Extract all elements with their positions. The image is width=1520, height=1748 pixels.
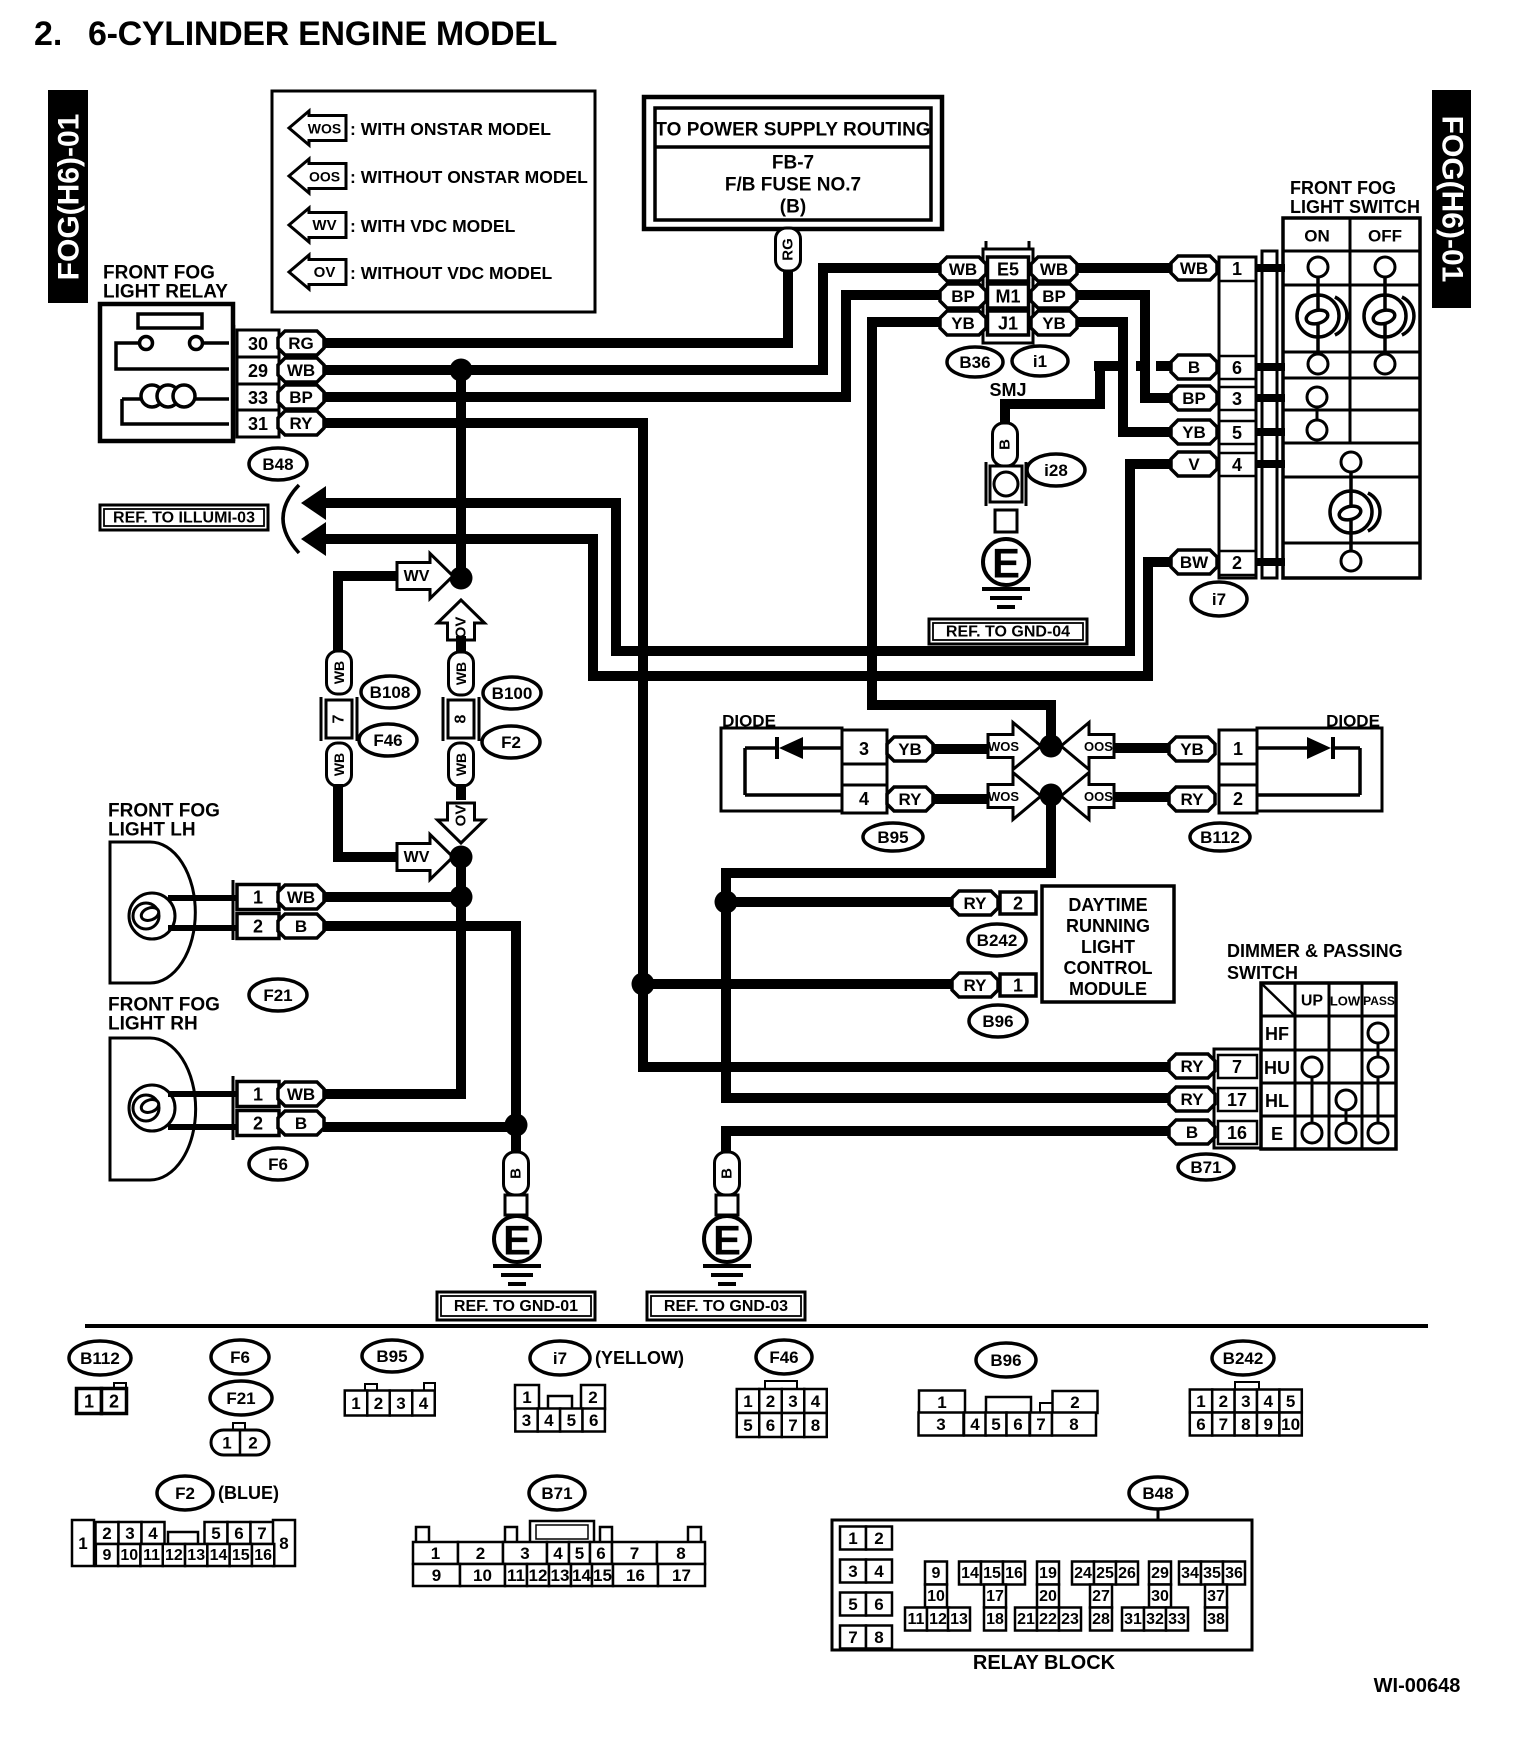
illumi brace arc bbox=[283, 485, 299, 553]
connector B96 pinout bbox=[919, 1391, 965, 1414]
svg-text:13: 13 bbox=[187, 1547, 205, 1564]
SMJ left label WB bbox=[940, 257, 986, 281]
svg-text:8: 8 bbox=[453, 714, 470, 723]
diode box left (B95) bbox=[721, 728, 842, 811]
connector B to ground GND-01 bbox=[504, 1152, 529, 1195]
fog switch pin column bbox=[1219, 257, 1256, 578]
svg-text:30: 30 bbox=[1151, 1588, 1169, 1605]
SMJ cell J1 bbox=[988, 311, 1029, 335]
svg-text:UP: UP bbox=[1301, 993, 1324, 1010]
oval F21 pinout bbox=[210, 1381, 272, 1415]
svg-text:FRONT FOG: FRONT FOG bbox=[103, 263, 215, 284]
fog RH connector pins bbox=[232, 1076, 235, 1140]
connector B71 pinout bbox=[416, 1527, 429, 1543]
svg-text:1: 1 bbox=[1233, 739, 1243, 759]
svg-text:1: 1 bbox=[848, 1529, 857, 1548]
fog RH pin2 label B bbox=[278, 1111, 324, 1135]
SMJ cell M1 bbox=[988, 284, 1029, 308]
svg-text:4: 4 bbox=[1232, 455, 1242, 475]
relay contact wiring bbox=[116, 343, 229, 369]
fog LH pin2 label B bbox=[278, 914, 324, 938]
ground E GND-03 bbox=[704, 1216, 750, 1262]
legend arrow WV bbox=[289, 208, 346, 242]
connector i7 pinout bbox=[515, 1385, 539, 1409]
svg-text:7: 7 bbox=[257, 1524, 266, 1543]
svg-text:7: 7 bbox=[788, 1416, 797, 1435]
svg-text:WB: WB bbox=[287, 1085, 315, 1104]
junction dot WB at relay row bbox=[450, 359, 473, 382]
oval B112 pinout bbox=[69, 1341, 131, 1375]
svg-text:35: 35 bbox=[1203, 1565, 1221, 1582]
wire YB to diode right bbox=[1113, 743, 1170, 753]
svg-text:36: 36 bbox=[1225, 1565, 1243, 1582]
illumi arrow upper bbox=[301, 486, 326, 520]
fog light RH housing bbox=[110, 1038, 196, 1180]
relay contact circles bbox=[140, 337, 153, 350]
svg-text:B: B bbox=[508, 1168, 525, 1179]
fog LH connector pins bbox=[232, 880, 235, 940]
oval i28 bbox=[1027, 454, 1085, 486]
arrow WV upper bbox=[397, 554, 453, 599]
svg-text:B: B bbox=[295, 1114, 307, 1133]
fog switch bulb ON bbox=[1297, 295, 1339, 337]
svg-text:i7: i7 bbox=[553, 1349, 567, 1368]
svg-text:2: 2 bbox=[476, 1544, 485, 1563]
svg-text:1: 1 bbox=[351, 1394, 360, 1413]
fog RH bulb leads bbox=[168, 1091, 237, 1097]
svg-text:WV: WV bbox=[312, 217, 336, 234]
svg-text:BP: BP bbox=[951, 287, 975, 306]
svg-text:9: 9 bbox=[432, 1566, 441, 1585]
svg-text:FB-7: FB-7 bbox=[772, 153, 814, 174]
ref to gnd-03 box bbox=[647, 1292, 805, 1320]
svg-text:6: 6 bbox=[766, 1416, 775, 1435]
svg-text:4: 4 bbox=[553, 1544, 563, 1563]
svg-text:B71: B71 bbox=[541, 1484, 572, 1503]
diode right pin column bbox=[1219, 730, 1257, 813]
svg-text:16: 16 bbox=[626, 1566, 645, 1585]
svg-text:9: 9 bbox=[1263, 1415, 1272, 1434]
wire B16 from dimmer to ground GND-03 bbox=[726, 1131, 1172, 1152]
diode right internal wiring bbox=[1257, 748, 1360, 795]
svg-text:8: 8 bbox=[279, 1534, 288, 1553]
svg-text:2.: 2. bbox=[34, 15, 62, 53]
svg-text:RY: RY bbox=[1181, 1057, 1205, 1076]
fuse 8 (F2) bbox=[443, 697, 479, 741]
svg-text:B: B bbox=[1188, 358, 1200, 377]
svg-text:7: 7 bbox=[1219, 1415, 1228, 1434]
relay pin 31 wire label RY bbox=[278, 411, 324, 435]
bottom separator line bbox=[85, 1324, 1428, 1328]
svg-text:B48: B48 bbox=[1142, 1484, 1173, 1503]
wire illumi lower to switch pin 2 (BW) bbox=[322, 539, 1172, 676]
svg-text:YB: YB bbox=[898, 740, 922, 759]
svg-text:30: 30 bbox=[248, 334, 268, 354]
svg-text:3: 3 bbox=[1232, 389, 1242, 409]
svg-text:27: 27 bbox=[1092, 1588, 1110, 1605]
svg-text:16: 16 bbox=[1227, 1123, 1247, 1143]
svg-text:YB: YB bbox=[1042, 314, 1066, 333]
svg-text:3: 3 bbox=[859, 739, 869, 759]
svg-text:WB: WB bbox=[453, 753, 469, 776]
svg-text:5: 5 bbox=[575, 1544, 584, 1563]
svg-text:B100: B100 bbox=[492, 684, 533, 703]
svg-text:12: 12 bbox=[529, 1566, 548, 1585]
svg-text:SWITCH: SWITCH bbox=[1227, 963, 1298, 983]
wire fog LH WB to junction bbox=[323, 892, 452, 902]
svg-text:7: 7 bbox=[1232, 1057, 1242, 1077]
svg-text:20: 20 bbox=[1039, 1588, 1057, 1605]
svg-text:8: 8 bbox=[811, 1416, 820, 1435]
svg-text:SMJ: SMJ bbox=[989, 380, 1026, 400]
wire WB from SMJ to switch pin 1 bbox=[1076, 263, 1172, 273]
svg-text:17: 17 bbox=[986, 1588, 1004, 1605]
relay coil return wiring bbox=[122, 399, 229, 424]
relay connector bracket bbox=[233, 325, 236, 441]
svg-text:2: 2 bbox=[248, 1434, 257, 1453]
relay block grid row B bbox=[925, 1585, 947, 1608]
wire RY diode left to junction bbox=[932, 794, 991, 804]
wire WB down to fog lights bbox=[323, 857, 461, 1094]
svg-text:(B): (B) bbox=[780, 197, 806, 218]
svg-text:5: 5 bbox=[211, 1524, 220, 1543]
SMJ connector bracket bbox=[986, 241, 1029, 250]
svg-text:DAYTIME: DAYTIME bbox=[1068, 895, 1147, 915]
svg-text:11: 11 bbox=[908, 1611, 925, 1628]
oval B242 pinout bbox=[1212, 1341, 1274, 1375]
svg-text:4: 4 bbox=[859, 789, 869, 809]
arrow WV lower bbox=[397, 835, 453, 880]
svg-text:25: 25 bbox=[1096, 1565, 1114, 1582]
svg-text:8: 8 bbox=[1241, 1415, 1250, 1434]
svg-text:5: 5 bbox=[743, 1416, 752, 1435]
svg-text:10: 10 bbox=[120, 1547, 138, 1564]
svg-text:RG: RG bbox=[780, 238, 797, 261]
svg-text:B242: B242 bbox=[977, 931, 1018, 950]
svg-text:1: 1 bbox=[84, 1392, 94, 1412]
svg-text:2: 2 bbox=[102, 1524, 111, 1543]
legend arrow OV bbox=[289, 255, 346, 289]
svg-text:F2: F2 bbox=[175, 1484, 195, 1503]
relay B48 box bbox=[100, 304, 233, 441]
oval F2 pinout bbox=[157, 1476, 213, 1510]
svg-text:CONTROL: CONTROL bbox=[1064, 958, 1153, 978]
svg-text:1: 1 bbox=[222, 1434, 231, 1453]
illumi arrow lower bbox=[301, 522, 326, 556]
svg-text:FRONT FOG: FRONT FOG bbox=[108, 801, 220, 822]
wire BP from relay pin 33 to SMJ M1 bbox=[323, 295, 941, 397]
connector F21 pinout bbox=[233, 1423, 245, 1431]
svg-text:MODULE: MODULE bbox=[1069, 979, 1147, 999]
svg-text:LIGHT: LIGHT bbox=[1081, 937, 1135, 957]
oval B95 bbox=[863, 823, 923, 851]
svg-text:BW: BW bbox=[1180, 553, 1209, 572]
svg-text:17: 17 bbox=[672, 1566, 691, 1585]
svg-text:1: 1 bbox=[253, 888, 263, 908]
svg-text:B242: B242 bbox=[1223, 1349, 1264, 1368]
relay pin 33 wire label BP bbox=[278, 385, 324, 409]
svg-text:TO POWER SUPPLY ROUTING: TO POWER SUPPLY ROUTING bbox=[655, 120, 930, 141]
svg-text:10: 10 bbox=[473, 1566, 492, 1585]
svg-text:6: 6 bbox=[1013, 1415, 1022, 1434]
diode left internal wiring bbox=[745, 748, 842, 795]
ground E GND-01 bbox=[494, 1216, 540, 1262]
diode box right (B112) bbox=[1257, 728, 1382, 811]
SMJ right label BP bbox=[1031, 284, 1077, 308]
svg-text:4: 4 bbox=[419, 1394, 429, 1413]
svg-text:F21: F21 bbox=[263, 986, 292, 1005]
svg-text:YB: YB bbox=[1182, 423, 1206, 442]
svg-text:24: 24 bbox=[1074, 1565, 1092, 1582]
svg-text:7: 7 bbox=[848, 1628, 857, 1647]
svg-text:WB: WB bbox=[331, 753, 347, 776]
svg-text:E: E bbox=[1271, 1124, 1283, 1144]
svg-text:12: 12 bbox=[165, 1547, 183, 1564]
oval F46 bbox=[359, 724, 417, 756]
relay pin 29 wire label WB bbox=[278, 358, 324, 382]
svg-text:V: V bbox=[1188, 455, 1200, 474]
wire RY branch to DRL module pin 1 bbox=[643, 979, 953, 989]
fog light RH bulb bbox=[129, 1085, 175, 1131]
svg-text:16: 16 bbox=[1005, 1565, 1023, 1582]
svg-text:1: 1 bbox=[1232, 259, 1242, 279]
SMJ left label YB bbox=[940, 311, 986, 335]
connector WB above fuse 8 bbox=[449, 652, 474, 695]
svg-text:10: 10 bbox=[927, 1588, 945, 1605]
svg-text:J1: J1 bbox=[998, 314, 1018, 334]
wire YB diode left to junction bbox=[932, 744, 991, 754]
svg-text:22: 22 bbox=[1039, 1611, 1057, 1628]
junction dot WB at fog LH bbox=[450, 886, 473, 909]
svg-text:1: 1 bbox=[743, 1392, 752, 1411]
oval B95 pinout bbox=[362, 1340, 422, 1372]
svg-text:RY: RY bbox=[964, 976, 988, 995]
svg-text:WOS: WOS bbox=[308, 121, 341, 137]
svg-text:5: 5 bbox=[567, 1411, 576, 1430]
svg-text:5: 5 bbox=[848, 1595, 857, 1614]
wire RG from power supply to relay pin 30 bbox=[323, 270, 788, 343]
connector WB below fuse 8 bbox=[449, 743, 474, 786]
svg-text:B95: B95 bbox=[376, 1347, 407, 1366]
svg-text:14: 14 bbox=[210, 1547, 228, 1564]
wire fog LH B to ground net bbox=[323, 926, 516, 1152]
svg-text:14: 14 bbox=[572, 1566, 591, 1585]
oval B112 diode bbox=[1190, 823, 1250, 851]
arrow OOS lower bbox=[1061, 773, 1114, 820]
wire WB below fuse 8 to OV lower bbox=[456, 784, 466, 800]
svg-text:LIGHT RH: LIGHT RH bbox=[108, 1014, 198, 1035]
svg-text:11: 11 bbox=[507, 1566, 525, 1585]
svg-text:3: 3 bbox=[520, 1544, 529, 1563]
svg-text:B108: B108 bbox=[370, 683, 411, 702]
wire WB from relay pin 29 to SMJ E5 bbox=[323, 268, 941, 370]
wire YB from SMJ to switch pin 5 bbox=[1076, 322, 1172, 432]
ref to illumi-03 box bbox=[100, 505, 268, 530]
svg-text:WB: WB bbox=[287, 888, 315, 907]
wire left branch below fuse 7 to WV lower bbox=[338, 784, 398, 857]
svg-text:: WITHOUT ONSTAR MODEL: : WITHOUT ONSTAR MODEL bbox=[350, 167, 588, 187]
svg-text:M1: M1 bbox=[995, 287, 1020, 307]
svg-text:14: 14 bbox=[961, 1565, 979, 1582]
svg-text:2: 2 bbox=[253, 1114, 263, 1134]
fog switch stubs bbox=[1256, 268, 1285, 562]
svg-text:B96: B96 bbox=[982, 1012, 1013, 1031]
svg-text:B: B bbox=[1186, 1123, 1198, 1142]
svg-text:WB: WB bbox=[331, 661, 347, 684]
svg-text:WB: WB bbox=[1180, 259, 1208, 278]
svg-text:15: 15 bbox=[232, 1547, 250, 1564]
fog switch left rail bbox=[1262, 251, 1277, 578]
svg-text:28: 28 bbox=[1092, 1611, 1110, 1628]
svg-text:WB: WB bbox=[287, 361, 315, 380]
dimmer pin labels bbox=[1169, 1054, 1215, 1078]
svg-text:31: 31 bbox=[248, 414, 268, 434]
svg-text:LIGHT SWITCH: LIGHT SWITCH bbox=[1290, 197, 1420, 217]
svg-text:11: 11 bbox=[143, 1547, 160, 1564]
svg-text:: WITH VDC MODEL: : WITH VDC MODEL bbox=[350, 216, 516, 236]
relay block grid row C bbox=[905, 1608, 927, 1631]
svg-text:YB: YB bbox=[951, 314, 975, 333]
oval F46 pinout bbox=[756, 1340, 812, 1374]
svg-text:F6: F6 bbox=[230, 1348, 250, 1367]
svg-text:RY: RY bbox=[964, 894, 988, 913]
fog switch BP/YB contacts bbox=[1307, 387, 1327, 407]
fog switch pin labels bbox=[1171, 256, 1217, 280]
relay block outline bbox=[832, 1520, 1252, 1650]
fog light LH housing bbox=[110, 842, 195, 983]
svg-text:6: 6 bbox=[874, 1595, 883, 1614]
svg-text:13: 13 bbox=[950, 1611, 968, 1628]
svg-text:9: 9 bbox=[103, 1547, 112, 1564]
svg-text:32: 32 bbox=[1146, 1611, 1164, 1628]
svg-text:3: 3 bbox=[522, 1411, 531, 1430]
oval B96 main bbox=[969, 1005, 1027, 1037]
dimmer switch table bbox=[1261, 983, 1396, 1149]
connector WB below fuse 7 bbox=[327, 743, 352, 786]
legend arrow WOS bbox=[289, 111, 346, 145]
svg-text:OV: OV bbox=[453, 805, 470, 827]
svg-text:HL: HL bbox=[1265, 1091, 1289, 1111]
left page tag FOG(H6)-01 bbox=[48, 90, 88, 303]
svg-text:5: 5 bbox=[1286, 1392, 1295, 1411]
svg-text:2: 2 bbox=[874, 1529, 883, 1548]
svg-text:YB: YB bbox=[1180, 740, 1204, 759]
svg-text:37: 37 bbox=[1207, 1588, 1225, 1605]
i28 joint connector bbox=[986, 462, 1026, 506]
svg-text:REF. TO GND-04: REF. TO GND-04 bbox=[946, 624, 1070, 641]
fog LH bulb leads bbox=[168, 895, 237, 901]
connector B95 pinout bbox=[365, 1384, 377, 1392]
diode left pin column bbox=[842, 730, 887, 813]
svg-text:FRONT FOG: FRONT FOG bbox=[108, 995, 220, 1016]
svg-text:8: 8 bbox=[676, 1544, 685, 1563]
connector F2 pinout bbox=[72, 1520, 94, 1566]
oval B108 bbox=[361, 676, 419, 708]
svg-text:2: 2 bbox=[1233, 789, 1243, 809]
svg-text:B95: B95 bbox=[877, 828, 908, 847]
oval i1 bbox=[1012, 346, 1068, 376]
svg-text:FRONT FOG: FRONT FOG bbox=[1290, 178, 1396, 198]
svg-text:3: 3 bbox=[125, 1524, 134, 1543]
svg-text:6: 6 bbox=[1196, 1415, 1205, 1434]
svg-text:WOS: WOS bbox=[988, 739, 1019, 754]
svg-text:B71: B71 bbox=[1190, 1158, 1221, 1177]
junction dot RY diode bbox=[1040, 784, 1063, 807]
svg-text:6: 6 bbox=[596, 1544, 605, 1563]
ref to gnd-04 box bbox=[929, 619, 1087, 644]
svg-text:34: 34 bbox=[1181, 1565, 1199, 1582]
svg-text:29: 29 bbox=[1151, 1565, 1169, 1582]
svg-text:1: 1 bbox=[78, 1534, 87, 1553]
relay armature bar bbox=[138, 314, 202, 328]
DRL module connector pin 2 bbox=[952, 891, 998, 915]
oval i7 bbox=[1191, 582, 1247, 616]
svg-text:7: 7 bbox=[1036, 1415, 1045, 1434]
relay block left pin pairs bbox=[840, 1527, 866, 1550]
svg-text:23: 23 bbox=[1061, 1611, 1079, 1628]
svg-text:REF. TO GND-01: REF. TO GND-01 bbox=[454, 1298, 578, 1315]
svg-text:2: 2 bbox=[374, 1394, 383, 1413]
svg-text:RY: RY bbox=[899, 790, 923, 809]
svg-text:OOS: OOS bbox=[1084, 789, 1113, 804]
svg-text:6: 6 bbox=[234, 1524, 243, 1543]
SMJ right label YB bbox=[1031, 311, 1077, 335]
svg-text:2: 2 bbox=[109, 1392, 119, 1412]
oval B100 bbox=[483, 677, 541, 709]
svg-text:i28: i28 bbox=[1044, 461, 1068, 480]
svg-text:OFF: OFF bbox=[1368, 227, 1402, 246]
legend arrow OOS bbox=[289, 159, 346, 193]
fog LH pin1 label WB bbox=[278, 885, 324, 909]
junction dot WV/OV lower bbox=[450, 846, 473, 869]
svg-text:HF: HF bbox=[1265, 1024, 1289, 1044]
svg-text:5: 5 bbox=[991, 1415, 1000, 1434]
svg-text:FOG(H6)-01: FOG(H6)-01 bbox=[53, 114, 86, 281]
svg-text:E5: E5 bbox=[997, 260, 1019, 280]
svg-text:WV: WV bbox=[404, 568, 430, 585]
legend box bbox=[272, 91, 595, 312]
svg-text:12: 12 bbox=[929, 1611, 947, 1628]
svg-text:4: 4 bbox=[874, 1562, 884, 1581]
svg-text:RY: RY bbox=[1181, 1090, 1205, 1109]
svg-text:B96: B96 bbox=[990, 1351, 1021, 1370]
connector RG below power box bbox=[776, 228, 801, 271]
arrow OV upper (points up) bbox=[438, 600, 485, 640]
fog switch body bbox=[1283, 218, 1420, 578]
oval B242 main bbox=[968, 924, 1026, 956]
svg-text:DIODE: DIODE bbox=[1326, 712, 1380, 731]
oval F6 pinout bbox=[211, 1340, 269, 1374]
wire YB from SMJ J1 left side down to diode junction bbox=[872, 322, 1051, 746]
daytime running light control module box bbox=[1042, 886, 1174, 1002]
wire fog RH B to ground junction bbox=[323, 1122, 516, 1132]
arrow WOS lower bbox=[988, 773, 1041, 820]
svg-text:E: E bbox=[713, 1217, 741, 1264]
diode symbol left bbox=[779, 737, 803, 759]
svg-text:F2: F2 bbox=[501, 733, 521, 752]
svg-text:2: 2 bbox=[1219, 1392, 1228, 1411]
svg-text:3: 3 bbox=[936, 1415, 945, 1434]
oval B71 pinout bbox=[529, 1476, 585, 1510]
svg-text:4: 4 bbox=[1263, 1392, 1273, 1411]
svg-text:2: 2 bbox=[1013, 894, 1023, 914]
svg-text:13: 13 bbox=[551, 1566, 570, 1585]
svg-text:WOS: WOS bbox=[988, 789, 1019, 804]
svg-text:16: 16 bbox=[254, 1547, 272, 1564]
SMJ right label WB bbox=[1031, 257, 1077, 281]
svg-text:RG: RG bbox=[288, 334, 314, 353]
svg-text:2: 2 bbox=[766, 1392, 775, 1411]
